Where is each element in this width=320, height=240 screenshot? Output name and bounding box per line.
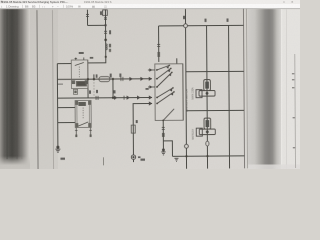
connector box on B wire	[131, 125, 135, 133]
node A junction	[104, 24, 106, 26]
alternator U1 (main box)	[75, 100, 91, 127]
wire: next page edge line	[294, 54, 297, 168]
wire: stub above bus L	[93, 74, 95, 79]
wire: rail y155	[172, 155, 244, 158]
wire: bus S (y97)	[58, 96, 152, 99]
page border line right outer	[246, 9, 247, 169]
connector block CB (small box below lamp)	[73, 89, 77, 94]
ignition switch S1 (box)	[155, 64, 183, 121]
wire label marks	[136, 120, 138, 123]
svg-text:‹ ›: ‹ ›	[42, 5, 45, 9]
svg-text:1992-95 Mazda 323 S: 1992-95 Mazda 323 S	[84, 0, 112, 4]
connector ticks on switch feed	[157, 44, 160, 46]
battery/relay K2 (lower right component)	[196, 118, 215, 136]
wire: stub to alternator S	[58, 107, 75, 109]
battery/relay K1 (upper right component)	[196, 80, 215, 98]
svg-text:BATTERY: BATTERY	[192, 128, 195, 139]
ground G1	[55, 146, 60, 152]
page border line inner	[52, 10, 53, 170]
switch contacts	[157, 65, 174, 120]
node E junction	[112, 78, 114, 80]
wire: switch output pin	[162, 120, 164, 149]
svg-text:1992-95 Mazda 323 Service/Char: 1992-95 Mazda 323 Service/Charging Syste…	[2, 0, 68, 4]
wire: ground feed left	[56, 64, 59, 147]
wire: main vertical at 186	[185, 9, 186, 169]
arrows on bus S	[114, 95, 152, 105]
wire: to warning lamp	[88, 62, 106, 64]
connector ring below K2	[206, 141, 209, 146]
svg-text:▤: ▤	[92, 5, 95, 9]
wire: top feed rail	[159, 24, 244, 27]
alternator bottom pins	[75, 127, 92, 136]
wire: drop to bus S at 88	[87, 60, 89, 98]
svg-text:MAIN 100A: MAIN 100A	[191, 87, 194, 100]
svg-text:B6: B6	[25, 5, 29, 9]
svg-text:◫: ◫	[104, 5, 107, 9]
wire label blob	[158, 52, 160, 57]
wire: bus to switch B terminal	[133, 103, 152, 162]
wire: switch top pin	[176, 58, 178, 63]
lamp pin squares	[72, 80, 75, 84]
wire: lamp feed left	[57, 63, 71, 65]
wire: switch feed drop	[158, 26, 160, 62]
wire: link between buses	[112, 79, 114, 98]
scattered tiny wire labels (scan texture)	[59, 10, 295, 161]
svg-text:□: □	[283, 0, 285, 4]
stray mark bottom	[102, 157, 104, 165]
wire: main vertical with fuse	[104, 10, 106, 64]
svg-text:B5: B5	[32, 5, 36, 9]
warning lamp L1 (box)	[71, 60, 88, 89]
wire label blob	[162, 133, 164, 137]
wire: branch to rail	[163, 141, 172, 157]
connector ticks below switch	[162, 127, 165, 129]
node D junction	[93, 78, 95, 80]
connector ring G3	[131, 155, 135, 159]
connector ticks C2	[104, 31, 107, 33]
tick on feed wire	[86, 14, 89, 16]
arrows on bus L	[129, 77, 152, 81]
switch contact dots	[156, 65, 175, 122]
ground G4	[174, 158, 178, 161]
fuse F1 (top, on main vertical)	[101, 10, 107, 16]
connector ticks on bus L	[121, 77, 123, 81]
node H junction	[185, 155, 187, 157]
wire: bus L (y78)	[57, 78, 151, 81]
inline fuse F2 on bus L	[99, 77, 110, 82]
alternator rotor blob	[78, 102, 86, 106]
svg-text:IGNITION SWITCH: IGNITION SWITCH	[184, 89, 188, 112]
wire: rail y111	[186, 109, 244, 111]
wire: rail y72	[186, 70, 244, 72]
wire: stub to alternator L	[58, 122, 75, 124]
node D2 junction	[87, 78, 89, 80]
connector ticks on bus S	[96, 96, 124, 100]
lighter zone bottom right	[170, 158, 244, 169]
page border line left	[37, 10, 38, 170]
bottom page edge light band	[248, 165, 300, 170]
alternator pin squares	[75, 101, 91, 127]
connector ring on 186 line	[184, 144, 188, 148]
node G (ring junction on feed rail)	[184, 24, 188, 28]
switch stub pins	[148, 70, 155, 87]
wire: feed from top to fuse block	[86, 10, 88, 26]
node C dot	[105, 56, 107, 58]
svg-text:1 Drawing: 1 Drawing	[6, 5, 19, 9]
regulator arrow	[77, 122, 88, 127]
node F junction	[112, 97, 114, 99]
connector ticks C1	[104, 18, 107, 20]
wire: dashed drop at 94	[93, 79, 95, 98]
wire: battery branch vertical	[206, 26, 209, 169]
wire: horizontal to node A	[88, 24, 106, 26]
ground G2	[161, 149, 165, 155]
wire: stub at 83.5	[57, 83, 62, 85]
svg-text:100%: 100%	[66, 5, 74, 9]
page border line right	[243, 9, 244, 169]
node I junction	[206, 155, 208, 157]
wire: right vertical	[228, 25, 231, 168]
lamp coil blob	[76, 81, 87, 87]
fusible link FL (coil)	[106, 44, 111, 52]
faint paper noise overlay	[0, 9, 300, 169]
node B junction	[104, 38, 107, 41]
lamp top pin ticks	[75, 57, 84, 60]
